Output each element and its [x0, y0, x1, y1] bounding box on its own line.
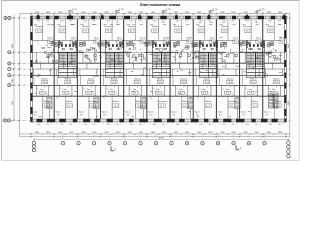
svg-text:Кухня: Кухня [33, 111, 38, 113]
svg-text:Кор.: Кор. [226, 89, 230, 91]
svg-text:Кор.: Кор. [87, 89, 91, 91]
svg-text:Жилая: Жилая [88, 78, 94, 80]
svg-text:2110: 2110 [60, 124, 64, 126]
svg-text:Кухня: Кухня [148, 111, 153, 113]
left grid bubble row Bb [8, 51, 11, 54]
svg-text:6.3: 6.3 [87, 93, 90, 95]
svg-text:3600: 3600 [288, 101, 290, 105]
svg-text:2840: 2840 [244, 132, 248, 134]
svg-text:Жилая: Жилая [66, 101, 73, 103]
svg-text:910: 910 [278, 124, 281, 126]
svg-text:1830: 1830 [255, 132, 259, 134]
svg-text:Кухня: Кухня [140, 37, 145, 39]
svg-text:2840: 2840 [104, 12, 108, 14]
svg-text:Кухня: Кухня [117, 37, 122, 39]
svg-text:1830: 1830 [255, 12, 259, 14]
svg-text:1830: 1830 [139, 12, 143, 14]
svg-text:2110: 2110 [37, 124, 41, 126]
svg-text:1510: 1510 [37, 20, 41, 22]
entrance steps bottom [47, 98, 52, 109]
left grid bubble row G [8, 74, 11, 77]
svg-text:6.3: 6.3 [41, 93, 44, 95]
svg-text:Жилая: Жилая [251, 101, 258, 103]
horizontal wall y69 (axis V) [31, 68, 286, 70]
dense sanitary clutter near stair sections [84, 55, 86, 57]
svg-text:2110: 2110 [176, 124, 180, 126]
partitions in lower service band [35, 85, 37, 96]
axis line row A [11, 17, 31, 19]
bottom exterior wall: window/pier texture [31, 118, 286, 120]
top exterior wall: window/pier texture [31, 15, 286, 17]
bottom axis bubbles [62, 134, 64, 142]
svg-text:Кухня: Кухня [94, 37, 99, 39]
svg-text:2840: 2840 [128, 132, 132, 134]
svg-text:1510: 1510 [106, 20, 110, 22]
vent tabs above top wall [37, 15, 39, 16]
svg-text:1510: 1510 [269, 20, 273, 22]
svg-text:1830: 1830 [185, 12, 189, 14]
svg-text:Кухня: Кухня [241, 111, 246, 113]
svg-text:1830: 1830 [92, 132, 96, 134]
svg-text:Кухня: Кухня [218, 111, 223, 113]
svg-text:1830: 1830 [92, 12, 96, 14]
svg-text:Кухня: Кухня [71, 37, 76, 39]
svg-text:+2.770: +2.770 [259, 9, 265, 11]
svg-text:2110: 2110 [269, 124, 273, 126]
axis line row B [11, 63, 31, 65]
svg-text:2110: 2110 [222, 124, 226, 126]
svg-text:+2.770: +2.770 [212, 9, 218, 11]
svg-text:2840: 2840 [220, 12, 224, 14]
svg-text:Кухня: Кухня [48, 37, 53, 39]
svg-text:2110: 2110 [199, 124, 203, 126]
left vertical dimension line outer [19, 14, 21, 137]
svg-text:2840: 2840 [267, 132, 271, 134]
axis line row V [11, 68, 31, 70]
svg-text:Жилая: Жилая [43, 101, 50, 103]
svg-text:+2.770: +2.770 [71, 9, 77, 11]
horizontal wall y52 (axis) [31, 51, 286, 53]
svg-text:Жилая: Жилая [221, 26, 228, 28]
right-end staircase [269, 94, 279, 108]
left grid bubble row B [8, 62, 11, 65]
left grid bubbles pair row G [3, 119, 6, 122]
svg-text:Кухня: Кухня [195, 111, 200, 113]
svg-text:910: 910 [69, 124, 72, 126]
svg-text:Кухня: Кухня [210, 37, 215, 39]
svg-text:6000: 6000 [12, 44, 14, 48]
svg-text:2110: 2110 [106, 124, 110, 126]
svg-text:910: 910 [278, 20, 281, 22]
svg-text:2840: 2840 [81, 132, 85, 134]
bottom axis bus line [34, 138, 289, 140]
svg-text:+2.770: +2.770 [118, 9, 124, 11]
svg-text:2840: 2840 [58, 12, 62, 14]
svg-text:1830: 1830 [139, 132, 143, 134]
svg-text:910: 910 [232, 20, 235, 22]
svg-text:Кухня: Кухня [279, 37, 284, 39]
svg-text:Кухня: Кухня [187, 37, 192, 39]
svg-text:6.3: 6.3 [64, 93, 67, 95]
svg-text:6.3: 6.3 [249, 93, 252, 95]
svg-text:910: 910 [93, 20, 96, 22]
svg-text:2840: 2840 [81, 12, 85, 14]
svg-text:Жилая: Жилая [135, 101, 142, 103]
section cut mark 2 [235, 145, 237, 150]
svg-text:6.3: 6.3 [110, 93, 113, 95]
svg-text:1510: 1510 [153, 20, 157, 22]
extra dim specks in top rooms [34, 24, 37, 26]
svg-text:6.3: 6.3 [180, 93, 183, 95]
svg-text:2840: 2840 [128, 12, 132, 14]
svg-text:2840: 2840 [35, 132, 39, 134]
interior cross walls [53, 19, 55, 119]
svg-text:Жилая: Жилая [157, 78, 163, 80]
horizontal wall y75.6 (axis G) [31, 75, 286, 77]
svg-text:Жилая: Жилая [134, 78, 140, 80]
svg-text:910: 910 [255, 20, 258, 22]
bottom dim chain 1 (rooms) [20, 133, 290, 135]
svg-text:Гостиная: Гостиная [227, 101, 236, 103]
svg-text:910: 910 [232, 124, 235, 126]
svg-text:2840: 2840 [151, 132, 155, 134]
svg-text:Кор.: Кор. [203, 89, 207, 91]
svg-text:Жилая: Жилая [41, 78, 47, 80]
misc clutter middle band [35, 61, 37, 63]
svg-text:1510: 1510 [60, 20, 64, 22]
right exterior wall [284, 16, 286, 122]
svg-text:Кухня: Кухня [172, 111, 177, 113]
svg-text:Гостиная: Гостиная [104, 26, 113, 28]
right vertical dimension line [289, 14, 291, 137]
svg-text:Кор.: Кор. [133, 89, 137, 91]
svg-text:910: 910 [162, 20, 165, 22]
svg-text:1830: 1830 [208, 132, 212, 134]
svg-text:2840: 2840 [104, 132, 108, 134]
svg-text:Ж: Ж [4, 120, 6, 122]
svg-text:Гостиная: Гостиная [158, 101, 167, 103]
svg-text:1640: 1640 [12, 79, 14, 83]
section cut mark 1 [110, 146, 112, 151]
svg-text:56000: 56000 [158, 138, 163, 140]
horizontal wall y63 (axis B) [31, 62, 286, 64]
svg-text:Кухня: Кухня [256, 37, 261, 39]
svg-text:1830: 1830 [208, 12, 212, 14]
svg-text:1830: 1830 [278, 132, 282, 134]
svg-text:6.3: 6.3 [226, 93, 229, 95]
svg-text:1510: 1510 [176, 20, 180, 22]
thin partitions [42, 19, 44, 40]
horizontal wall y85.4 (axis D) [31, 84, 286, 86]
svg-text:Гостиная: Гостиная [35, 26, 44, 28]
svg-text:910: 910 [46, 124, 49, 126]
svg-text:2840: 2840 [151, 12, 155, 14]
svg-text:910: 910 [255, 124, 258, 126]
svg-text:Жилая: Жилая [182, 101, 189, 103]
svg-text:1830: 1830 [278, 12, 282, 14]
svg-text:910: 910 [116, 124, 119, 126]
svg-text:2840: 2840 [174, 132, 178, 134]
svg-text:Жилая: Жилая [152, 26, 159, 28]
svg-text:2110: 2110 [245, 124, 249, 126]
svg-text:1510: 1510 [245, 20, 249, 22]
svg-text:Кор.: Кор. [249, 89, 253, 91]
svg-text:6000: 6000 [288, 44, 290, 48]
svg-text:Кухня: Кухня [163, 37, 168, 39]
axis line row G [11, 74, 31, 76]
svg-text:910: 910 [139, 20, 142, 22]
svg-text:Г: Г [9, 69, 10, 71]
svg-text:910: 910 [208, 124, 211, 126]
svg-text:Жилая: Жилая [204, 78, 210, 80]
svg-text:Жилая: Жилая [205, 101, 212, 103]
svg-text:Жилая: Жилая [268, 26, 275, 28]
svg-text:Кор.: Кор. [156, 89, 160, 91]
svg-text:1830: 1830 [231, 132, 235, 134]
svg-text:1510: 1510 [83, 20, 87, 22]
svg-text:910: 910 [46, 20, 49, 22]
svg-text:+2.770: +2.770 [165, 9, 171, 11]
svg-text:2840: 2840 [58, 132, 62, 134]
svg-text:2840: 2840 [197, 12, 201, 14]
left grid bubble row V [8, 67, 11, 70]
svg-text:Гостиная: Гостиная [243, 26, 252, 28]
svg-text:Жилая: Жилая [82, 26, 89, 28]
bottom-right bubble stack [288, 139, 290, 142]
svg-text:Жилая: Жилая [128, 26, 135, 28]
axis line row G [11, 120, 32, 122]
svg-text:Кухня: Кухня [56, 111, 61, 113]
svg-text:Кор.: Кор. [272, 89, 276, 91]
svg-text:Жилая: Жилая [250, 78, 256, 80]
left exterior wall [30, 16, 32, 122]
svg-text:Жилая: Жилая [65, 78, 71, 80]
svg-text:2840: 2840 [220, 132, 224, 134]
svg-text:1510: 1510 [199, 20, 203, 22]
svg-text:6.3: 6.3 [133, 93, 136, 95]
svg-text:2110: 2110 [83, 124, 87, 126]
svg-text:Жилая: Жилая [227, 78, 233, 80]
top dimension chain [20, 13, 291, 15]
bottom-left bubble stack [33, 139, 35, 141]
svg-text:Кухня: Кухня [264, 111, 269, 113]
svg-text:Кухня: Кухня [102, 111, 107, 113]
svg-text:План типового этажа: План типового этажа [140, 3, 180, 7]
svg-text:Жилая: Жилая [112, 101, 119, 103]
svg-text:2110: 2110 [130, 124, 134, 126]
svg-text:1830: 1830 [231, 12, 235, 14]
svg-text:1830: 1830 [185, 132, 189, 134]
left grid bubble row D [8, 84, 11, 87]
svg-text:910: 910 [185, 124, 188, 126]
bath and kitchen fixtures [51, 41, 54, 45]
left grid bubbles pair row A [4, 16, 7, 19]
svg-text:1830: 1830 [115, 132, 119, 134]
svg-text:2840: 2840 [244, 12, 248, 14]
horizontal wall y40 [32, 40, 50, 42]
svg-text:Кухня: Кухня [79, 111, 84, 113]
svg-text:Жилая: Жилая [180, 78, 186, 80]
svg-text:2110: 2110 [153, 124, 157, 126]
svg-text:Жилая: Жилая [111, 78, 117, 80]
svg-text:Кор.: Кор. [110, 89, 114, 91]
left vertical dimension line inner [13, 15, 15, 121]
svg-text:6.3: 6.3 [157, 93, 160, 95]
svg-text:Гостиная: Гостиная [174, 26, 183, 28]
svg-text:1830: 1830 [69, 12, 73, 14]
page border frame [2, 0, 300, 1]
svg-text:2840: 2840 [267, 12, 271, 14]
svg-text:1510: 1510 [222, 20, 226, 22]
svg-text:1830: 1830 [46, 132, 50, 134]
svg-text:1830: 1830 [46, 12, 50, 14]
svg-text:910: 910 [116, 20, 119, 22]
svg-text:Кор.: Кор. [40, 89, 44, 91]
svg-text:Жилая: Жилая [275, 101, 282, 103]
svg-text:Кухня: Кухня [233, 37, 238, 39]
svg-text:910: 910 [162, 124, 165, 126]
horizontal wall y96.2 [31, 95, 286, 97]
svg-text:Жилая: Жилая [198, 26, 205, 28]
staircases with tread hatching [59, 53, 77, 66]
axis line row D [11, 84, 31, 86]
svg-text:2840: 2840 [174, 12, 178, 14]
svg-text:1510: 1510 [130, 20, 134, 22]
partitions in corridor band [40, 63, 42, 69]
svg-text:910: 910 [93, 124, 96, 126]
elevation marks above stairs [68, 10, 70, 15]
svg-text:Гостиная: Гостиная [88, 101, 97, 103]
tiny in-room dimension specks [51, 24, 54, 26]
svg-text:910: 910 [139, 124, 142, 126]
svg-text:2840: 2840 [35, 12, 39, 14]
axis line row Bb [11, 51, 31, 53]
svg-text:Жилая: Жилая [273, 78, 279, 80]
svg-text:3600: 3600 [12, 101, 14, 105]
svg-text:6.3: 6.3 [203, 93, 206, 95]
svg-text:2840: 2840 [197, 132, 201, 134]
svg-text:Кухня: Кухня [125, 111, 130, 113]
svg-text:Кор.: Кор. [179, 89, 183, 91]
svg-text:1830: 1830 [162, 132, 166, 134]
svg-text:1830: 1830 [162, 12, 166, 14]
svg-text:910: 910 [69, 20, 72, 22]
svg-text:1830: 1830 [69, 132, 73, 134]
bottom dim chain 2 (bays) [20, 136, 290, 138]
svg-text:Жилая: Жилая [59, 26, 66, 28]
svg-text:910: 910 [185, 20, 188, 22]
svg-text:910: 910 [208, 20, 211, 22]
svg-text:Кор.: Кор. [63, 89, 67, 91]
